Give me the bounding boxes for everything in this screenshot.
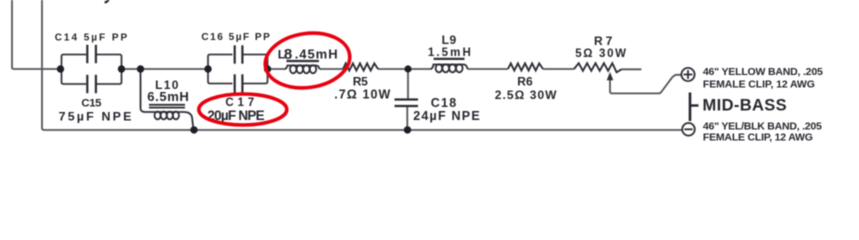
svg-text:24µF NPE: 24µF NPE	[413, 109, 480, 123]
svg-text:R5: R5	[353, 74, 368, 88]
svg-text:75µF NPE: 75µF NPE	[59, 109, 132, 123]
svg-text:FEMALE CLIP, 12 AWG: FEMALE CLIP, 12 AWG	[703, 131, 813, 143]
svg-text:R6: R6	[517, 75, 533, 89]
svg-text:R7: R7	[594, 34, 613, 48]
svg-text:C14 5µF PP: C14 5µF PP	[55, 32, 128, 43]
svg-text:8: 8	[284, 46, 292, 63]
svg-text:6.5mH: 6.5mH	[147, 89, 189, 104]
svg-text:.7Ω 10W: .7Ω 10W	[334, 88, 390, 102]
svg-text:MID-BASS: MID-BASS	[703, 97, 787, 115]
svg-text:46" YELLOW BAND, .205: 46" YELLOW BAND, .205	[703, 66, 823, 78]
svg-text:C15: C15	[81, 98, 101, 110]
svg-text:L9: L9	[442, 33, 457, 47]
svg-text:.45mH: .45mH	[295, 47, 338, 62]
svg-text:5Ω 30W: 5Ω 30W	[575, 48, 626, 60]
svg-text:2.5Ω 30W: 2.5Ω 30W	[495, 88, 557, 102]
svg-text:1.5mH: 1.5mH	[428, 47, 471, 59]
svg-text:C16 5µF PP: C16 5µF PP	[201, 32, 270, 43]
svg-text:FEMALE CLIP, 12 AWG: FEMALE CLIP, 12 AWG	[703, 78, 815, 90]
svg-text:C18: C18	[431, 96, 457, 110]
